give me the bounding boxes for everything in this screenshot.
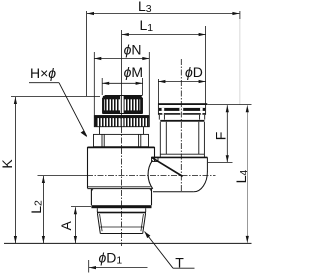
horizontal centerline of side port — [38, 175, 88, 177]
cap (bonnet) — [94, 134, 149, 146]
svg-text:ϕD1: ϕD1 — [99, 250, 123, 267]
thread relief neck — [97, 208, 145, 212]
phiN dimension — [94, 52, 149, 115]
fitting vertical centerline — [180, 59, 182, 191]
T leader — [145, 232, 195, 269]
top right extension (flange top continued) — [207, 104, 251, 106]
svg-text:ϕM: ϕM — [124, 64, 143, 80]
release flange (top) : top line doubles as extension line — [158, 103, 207, 115]
neck below ring — [100, 127, 144, 134]
L1 dimension — [122, 26, 206, 105]
bottom baseline — [4, 242, 252, 244]
hex section — [91, 189, 151, 208]
svg-text:L1: L1 — [140, 17, 154, 34]
svg-text:A: A — [58, 221, 74, 231]
phiM dimension — [102, 78, 142, 95]
second band — [159, 115, 204, 122]
elbow block — [152, 157, 208, 192]
small square detail at elbow top-left — [152, 157, 159, 161]
K dimension — [11, 96, 100, 243]
svg-text:T: T — [175, 254, 184, 270]
A dimension — [71, 207, 91, 243]
cartridge tube body — [160, 122, 204, 157]
phiD1 dimension — [89, 260, 148, 273]
knob (adjustment screw) — [103, 96, 143, 114]
svg-text:L3: L3 — [138, 0, 152, 15]
svg-text:K: K — [0, 159, 15, 169]
L4 dimension — [246, 105, 248, 243]
phiD dimension — [158, 79, 205, 105]
svg-text:F: F — [213, 132, 229, 141]
vertical centerline of valve — [121, 30, 123, 127]
svg-text:H×ϕ: H×ϕ — [30, 65, 56, 81]
F dimension — [226, 105, 228, 162]
svg-text:L4: L4 — [233, 170, 250, 184]
main diagonal in elbow corner — [152, 158, 182, 177]
svg-text:ϕN: ϕN — [124, 41, 142, 57]
body — [88, 147, 155, 189]
L3 dimension — [87, 11, 240, 105]
svg-text:ϕD: ϕD — [185, 64, 203, 80]
lock ring (knurled) — [94, 116, 149, 127]
swivel ball arc on body right — [148, 160, 153, 189]
male thread — [97, 212, 146, 234]
svg-text:L2: L2 — [28, 200, 45, 214]
L2 dimension — [42, 176, 44, 243]
H x phi leader — [29, 83, 87, 137]
